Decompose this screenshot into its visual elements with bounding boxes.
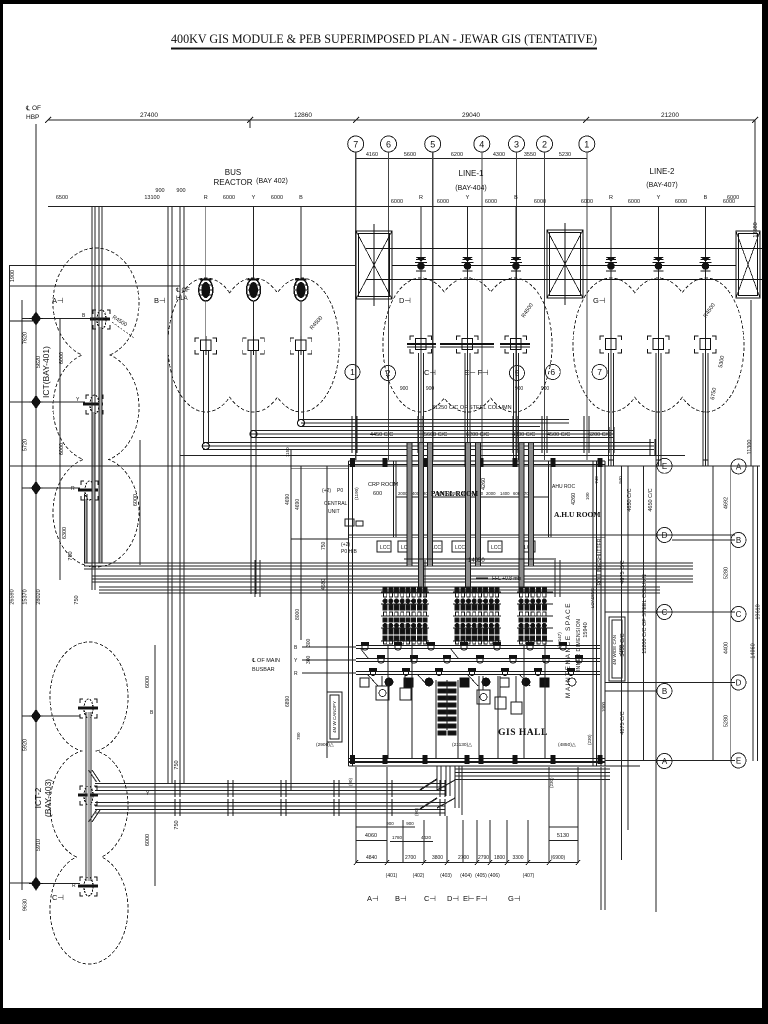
svg-text:P0: P0 xyxy=(337,488,343,494)
svg-text:℄ OF: ℄ OF xyxy=(175,288,190,294)
svg-text:6200: 6200 xyxy=(451,152,463,158)
svg-text:4M W CANOPY: 4M W CANOPY xyxy=(332,701,337,733)
svg-text:6000: 6000 xyxy=(437,199,449,205)
svg-text:A.H.U ROOM: A.H.U ROOM xyxy=(554,510,600,519)
svg-text:6000: 6000 xyxy=(534,199,546,205)
svg-text:5230: 5230 xyxy=(559,152,571,158)
svg-text:2790: 2790 xyxy=(478,855,489,861)
wire diagonal ties xyxy=(360,648,530,686)
svg-text:(10147): (10147) xyxy=(557,632,562,648)
bottom dim labels xyxy=(366,855,566,861)
svg-text:4650 C/C: 4650 C/C xyxy=(627,488,633,511)
svg-text:LINE-1: LINE-1 xyxy=(459,169,484,178)
wire bottom main dim line xyxy=(356,862,578,864)
svg-text:750: 750 xyxy=(174,760,180,769)
svg-text:HLA: HLA xyxy=(176,296,188,302)
svg-text:4875 C/C: 4875 C/C xyxy=(620,711,626,734)
connector BR B xyxy=(290,336,312,355)
svg-text:3550: 3550 xyxy=(524,152,536,158)
svg-text:4M WIDE CAN: 4M WIDE CAN xyxy=(612,635,617,665)
svg-text:5: 5 xyxy=(430,140,435,150)
svg-text:1780: 1780 xyxy=(392,835,403,840)
svg-text:4160: 4160 xyxy=(366,152,378,158)
svg-text:R: R xyxy=(419,195,423,201)
svg-text:11300: 11300 xyxy=(747,440,753,455)
LCC boxes row xyxy=(377,541,535,552)
svg-text:740: 740 xyxy=(594,476,599,484)
connector L2 B xyxy=(695,336,717,353)
svg-text:4450 C/C: 4450 C/C xyxy=(370,432,393,438)
svg-text:14050: 14050 xyxy=(468,558,485,564)
svg-text:MAINTENANCE SPACE: MAINTENANCE SPACE xyxy=(565,602,572,698)
svg-text:600: 600 xyxy=(373,491,382,497)
svg-text:(BAY 402): (BAY 402) xyxy=(256,178,288,185)
svg-text:(BAY-403): (BAY-403) xyxy=(43,779,53,817)
bus labels C/C xyxy=(370,405,611,438)
svg-text:HBP: HBP xyxy=(26,114,39,121)
connector L1 R xyxy=(407,336,436,353)
svg-text:Y: Y xyxy=(657,195,661,201)
connector ICT-1 B xyxy=(90,310,110,329)
svg-text:940: 940 xyxy=(618,476,623,484)
lower equipment row xyxy=(360,678,576,687)
svg-text:750: 750 xyxy=(68,551,74,560)
interior wall below control rooms xyxy=(349,534,606,536)
cloud BUS REACTOR (BAY 402) xyxy=(168,278,339,412)
wire left dim vertical x=291 xyxy=(290,450,292,790)
wire far right verticals xyxy=(752,466,754,761)
svg-text:℄ OF: ℄ OF xyxy=(25,105,41,112)
svg-text:900: 900 xyxy=(406,821,414,826)
svg-text:ICT(BAY-401): ICT(BAY-401) xyxy=(41,346,51,398)
bushing Y xyxy=(247,279,261,301)
room divider CRP|PANEL xyxy=(393,461,395,537)
svg-text:31250 C/C OF STEEL COLUMN: 31250 C/C OF STEEL COLUMN xyxy=(432,405,512,411)
svg-text:℄ OF MAIN: ℄ OF MAIN xyxy=(251,658,280,664)
svg-text:4260: 4260 xyxy=(481,478,487,490)
svg-text:4650 C/C: 4650 C/C xyxy=(648,488,654,511)
svg-text:3: 3 xyxy=(514,140,519,150)
steel column K1 xyxy=(356,224,392,306)
svg-text:6890: 6890 xyxy=(285,696,291,707)
svg-text:4580: 4580 xyxy=(321,579,327,590)
svg-text:G⊣: G⊣ xyxy=(593,296,606,305)
cloud LINE-2 (BAY-407) xyxy=(573,278,744,412)
svg-text:7620: 7620 xyxy=(23,332,29,344)
svg-text:R4500: R4500 xyxy=(309,315,324,331)
wall columns on grid xyxy=(350,458,603,764)
svg-text:BUS: BUS xyxy=(225,168,241,177)
wire ICT-2 feeder vertical (grey core) xyxy=(87,712,90,881)
wire flange marks on E row xyxy=(608,459,709,461)
svg-text:(1190): (1190) xyxy=(354,487,359,500)
svg-text:6000: 6000 xyxy=(133,494,139,506)
connector ICT-1 R xyxy=(78,481,98,500)
svg-text:4690: 4690 xyxy=(295,499,301,510)
svg-text:D⊣: D⊣ xyxy=(447,894,459,903)
svg-text:14960: 14960 xyxy=(751,643,757,658)
svg-text:5450 C/C: 5450 C/C xyxy=(620,633,626,656)
wire grid row lines right xyxy=(605,535,735,761)
svg-text:4420: 4420 xyxy=(421,835,432,840)
svg-text:Y: Y xyxy=(294,658,298,664)
equipment cluster bay C xyxy=(517,587,553,644)
svg-text:21200: 21200 xyxy=(661,112,679,119)
svg-text:(407): (407) xyxy=(523,873,535,879)
svg-text:C: C xyxy=(736,610,742,619)
connector L2 Y xyxy=(648,336,670,353)
svg-text:6200 C/C: 6200 C/C xyxy=(588,432,611,438)
svg-text:5280: 5280 xyxy=(724,715,730,727)
svg-text:A: A xyxy=(662,757,668,766)
grid bubbles row 2 xyxy=(345,365,607,381)
svg-text:4260: 4260 xyxy=(571,493,577,505)
svg-text:6000: 6000 xyxy=(628,199,640,205)
label ICT-2 (BAY-403) xyxy=(33,779,53,817)
svg-text:29040: 29040 xyxy=(462,112,480,119)
wire feeders down xyxy=(203,351,303,594)
svg-text:UNIT: UNIT xyxy=(328,509,340,515)
connector ICT-2 Y xyxy=(78,786,98,805)
svg-text:B: B xyxy=(662,687,667,696)
small boxes with stems xyxy=(376,676,522,714)
svg-text:B: B xyxy=(299,195,303,201)
wire LINE phase drops xyxy=(419,207,709,466)
svg-text:CRP ROOM: CRP ROOM xyxy=(368,482,399,488)
svg-text:BUSBAR: BUSBAR xyxy=(252,667,275,673)
svg-text:2700: 2700 xyxy=(458,855,469,861)
wire ICT-1 feeder verticals xyxy=(60,207,155,886)
svg-text:(+2): (+2) xyxy=(341,542,350,548)
svg-text:(401): (401) xyxy=(386,873,398,879)
svg-text:FFL +0.8 mts: FFL +0.8 mts xyxy=(492,576,522,582)
steel column K2 xyxy=(547,223,583,305)
svg-text:Y: Y xyxy=(466,195,470,201)
svg-text:5280: 5280 xyxy=(724,567,730,579)
valve symbols row y=265 xyxy=(415,258,712,272)
svg-text:D: D xyxy=(662,531,668,540)
svg-text:6000: 6000 xyxy=(223,195,235,201)
rotated dim labels right of hall xyxy=(594,476,654,735)
svg-text:6000: 6000 xyxy=(391,199,403,205)
connector L1 B xyxy=(500,336,530,353)
svg-text:900: 900 xyxy=(176,188,185,194)
connector ICT-1 Y xyxy=(83,395,103,414)
wire left dim vertical x=327 xyxy=(326,466,328,758)
svg-text:(230): (230) xyxy=(549,777,554,788)
svg-text:1900: 1900 xyxy=(10,270,16,282)
wire main busbar band 2 xyxy=(95,803,445,814)
wire busbar tick flanges xyxy=(175,780,445,816)
svg-text:6000: 6000 xyxy=(675,199,687,205)
wire column drop lines below hall xyxy=(356,767,605,910)
rotated dim labels left xyxy=(10,270,181,911)
svg-text:E⊢: E⊢ xyxy=(463,894,475,903)
dim row tiny xyxy=(398,491,532,496)
svg-text:5300: 5300 xyxy=(718,355,726,368)
svg-text:750: 750 xyxy=(74,595,80,604)
svg-text:(403): (403) xyxy=(440,873,452,879)
grid bubbles inner col xyxy=(657,458,672,768)
wire left stub to K1 xyxy=(10,320,36,322)
svg-text:C⊣: C⊣ xyxy=(424,894,436,903)
svg-text:A⊣: A⊣ xyxy=(52,296,64,305)
connector L2 R xyxy=(600,336,622,353)
svg-text:19610: 19610 xyxy=(756,604,762,619)
svg-text:(230): (230) xyxy=(587,734,592,745)
svg-text:5720: 5720 xyxy=(23,439,29,451)
svg-text:6500: 6500 xyxy=(56,195,68,201)
connector ICT-2 R xyxy=(78,877,98,896)
svg-text:B: B xyxy=(514,195,518,201)
svg-text:3300: 3300 xyxy=(512,855,523,861)
dim 14050 xyxy=(404,558,556,560)
wire bus tick flanges xyxy=(352,416,655,456)
svg-text:4300 C/C: 4300 C/C xyxy=(512,432,535,438)
svg-text:CENTRAL: CENTRAL xyxy=(324,501,348,507)
svg-text:(405): (405) xyxy=(475,873,487,879)
svg-text:LCC: LCC xyxy=(491,545,501,551)
svg-text:900: 900 xyxy=(155,188,164,194)
surge arrester diamonds on x=36 xyxy=(29,312,43,890)
small hub box xyxy=(345,519,354,526)
svg-text:B: B xyxy=(736,536,741,545)
bushing B xyxy=(294,279,308,301)
svg-text:4500 C/C: 4500 C/C xyxy=(547,432,570,438)
svg-text:27400: 27400 xyxy=(140,112,158,119)
GIS hall outer walls xyxy=(349,461,641,766)
svg-text:R4500: R4500 xyxy=(521,302,535,319)
svg-text:5910: 5910 xyxy=(36,839,42,851)
wire band line upper y=248.5 xyxy=(366,248,762,250)
svg-text:300: 300 xyxy=(306,655,312,664)
svg-text:12860: 12860 xyxy=(294,112,312,119)
canopy box xyxy=(609,617,625,681)
svg-text:P0 HIB: P0 HIB xyxy=(341,549,358,555)
grid bubbles outer col xyxy=(731,459,746,768)
wire main busbar band 1 xyxy=(95,769,610,794)
svg-text:4300: 4300 xyxy=(493,152,505,158)
svg-text:6000: 6000 xyxy=(581,199,593,205)
svg-text:B⊣: B⊣ xyxy=(395,894,407,903)
svg-text:LCC: LCC xyxy=(455,545,465,551)
svg-text:1150: 1150 xyxy=(285,447,290,457)
svg-text:7: 7 xyxy=(353,140,358,150)
wire left horizontal ties xyxy=(10,265,356,267)
cable feeder stacks down xyxy=(436,680,458,758)
wire bus row2 y=432 xyxy=(251,430,613,432)
svg-text:(90): (90) xyxy=(348,777,353,786)
svg-text:F⊣: F⊣ xyxy=(476,894,488,903)
svg-text:A⊣: A⊣ xyxy=(367,894,379,903)
svg-text:(90): (90) xyxy=(414,808,419,817)
svg-text:5130: 5130 xyxy=(557,833,569,839)
wire ICT-2 elbows to main busbar xyxy=(89,770,101,782)
svg-text:R: R xyxy=(72,883,76,889)
wire bus row1 y=421 xyxy=(10,420,760,466)
svg-text:(4850)△: (4850)△ xyxy=(558,742,576,748)
svg-text:2700: 2700 xyxy=(405,855,416,861)
svg-text:4692: 4692 xyxy=(724,497,730,509)
svg-text:5920: 5920 xyxy=(23,739,29,751)
svg-text:C⊣: C⊣ xyxy=(424,368,436,377)
svg-text:INNER DIMENSION: INNER DIMENSION xyxy=(576,619,582,672)
dim bracket 4060 xyxy=(356,827,387,841)
svg-text:(BAY-407): (BAY-407) xyxy=(646,182,678,189)
wire outer tick vertical xyxy=(712,466,714,761)
svg-text:Y: Y xyxy=(252,195,256,201)
svg-text:LOADING: LOADING xyxy=(590,587,595,608)
svg-text:9630: 9630 xyxy=(23,899,29,911)
svg-text:780: 780 xyxy=(296,732,301,740)
wire row ties ICT-2 xyxy=(43,715,80,717)
wire left dim verticals xyxy=(9,265,11,940)
svg-text:750: 750 xyxy=(174,820,180,829)
wire HBP conductor pairs xyxy=(168,207,184,783)
svg-text:ROLLING SHUTTER: ROLLING SHUTTER xyxy=(597,538,603,585)
svg-text:900: 900 xyxy=(541,386,550,392)
connector BR R xyxy=(195,336,217,355)
wire riser elbows near hall xyxy=(420,766,462,815)
wire bushing to connector xyxy=(205,301,207,337)
svg-text:E: E xyxy=(736,757,741,766)
svg-text:1000: 1000 xyxy=(601,701,606,712)
wire main top dimension line y=120 xyxy=(48,119,755,121)
svg-text:6000: 6000 xyxy=(485,199,497,205)
elbow flanges xyxy=(202,420,304,450)
wire bus tick groups xyxy=(255,560,560,597)
wire ICT-1 feeder grey cores xyxy=(99,327,102,563)
svg-text:B: B xyxy=(150,710,154,716)
svg-text:6000: 6000 xyxy=(271,195,283,201)
svg-text:2000: 2000 xyxy=(398,491,408,496)
wire left dim vertical x=301 xyxy=(300,466,302,640)
bay number labels xyxy=(386,873,535,879)
svg-text:7: 7 xyxy=(597,367,602,377)
svg-text:E: E xyxy=(662,462,667,471)
svg-text:2: 2 xyxy=(542,140,547,150)
svg-text:R4500: R4500 xyxy=(703,302,717,319)
svg-text:PANEL ROOM: PANEL ROOM xyxy=(431,490,479,498)
busbar rows in hall xyxy=(356,646,600,675)
svg-text:D: D xyxy=(736,679,742,688)
svg-text:6000: 6000 xyxy=(145,676,151,688)
svg-text:GIS HALL: GIS HALL xyxy=(498,728,548,738)
busbar flange circles xyxy=(362,644,582,676)
svg-text:R: R xyxy=(294,671,298,677)
svg-text:8000: 8000 xyxy=(295,609,301,620)
svg-text:G⊣: G⊣ xyxy=(508,894,521,903)
svg-text:LCC: LCC xyxy=(380,545,390,551)
svg-text:13580: 13580 xyxy=(753,222,759,237)
svg-text:R: R xyxy=(609,195,613,201)
svg-text:15940: 15940 xyxy=(583,622,589,637)
connector ICT-2 B xyxy=(78,699,98,718)
svg-text:B: B xyxy=(704,195,708,201)
svg-text:6750: 6750 xyxy=(710,387,718,400)
cloud ICT(BAY-401) xyxy=(53,248,139,567)
dim bracket 5130 xyxy=(549,827,578,841)
svg-text:750: 750 xyxy=(321,541,327,550)
svg-text:28020: 28020 xyxy=(36,589,42,604)
svg-text:R: R xyxy=(71,486,75,492)
svg-text:5600: 5600 xyxy=(404,152,416,158)
svg-text:4875 C/C: 4875 C/C xyxy=(620,560,626,583)
bushing R xyxy=(199,279,213,301)
equipment cluster bay A xyxy=(381,587,429,644)
svg-text:R4500: R4500 xyxy=(111,315,128,329)
small dims 900 1780 4420 xyxy=(386,808,431,840)
wicket gate boxes xyxy=(327,692,342,742)
svg-text:900: 900 xyxy=(386,821,394,826)
svg-text:(406): (406) xyxy=(488,873,500,879)
section marker A xyxy=(52,288,190,305)
svg-text:LINE-2: LINE-2 xyxy=(650,167,675,176)
steel column K3 right edge xyxy=(736,231,760,298)
svg-text:4840: 4840 xyxy=(366,855,377,861)
svg-text:(402): (402) xyxy=(413,873,425,879)
wire HLA line right part xyxy=(392,265,736,267)
equipment cluster bay B xyxy=(453,587,501,644)
connector L1 Y xyxy=(440,336,494,353)
svg-text:6: 6 xyxy=(550,367,555,377)
wire extension verticals xyxy=(35,124,37,888)
svg-text:5600 C/C: 5600 C/C xyxy=(424,432,447,438)
svg-text:D⊣: D⊣ xyxy=(399,296,411,305)
busbar flange blocks xyxy=(361,642,583,672)
bottom annotation row xyxy=(316,742,576,748)
svg-text:4690: 4690 xyxy=(285,494,291,505)
svg-text:AHU ROC: AHU ROC xyxy=(552,484,575,490)
svg-text:6000: 6000 xyxy=(727,195,739,201)
svg-text:B: B xyxy=(294,645,298,651)
svg-text:1: 1 xyxy=(350,367,355,377)
svg-text:15200 C/C OF STEEL COLUMN: 15200 C/C OF STEEL COLUMN xyxy=(642,574,648,654)
cloud ICT-2 (BAY-403) xyxy=(50,642,128,964)
GIB grey vertical ducts xyxy=(410,443,532,588)
room texts xyxy=(322,478,600,519)
svg-text:13100: 13100 xyxy=(144,195,159,201)
wire row ties ICT-1 xyxy=(43,318,92,320)
wire row E long line xyxy=(10,465,760,467)
bay titles xyxy=(214,167,678,192)
wire HBP bus rows to the right y 563-594 xyxy=(84,563,693,593)
rotated dim labels far right xyxy=(724,195,762,727)
svg-text:900: 900 xyxy=(400,386,409,392)
svg-text:R: R xyxy=(204,195,208,201)
svg-text:(404): (404) xyxy=(460,873,472,879)
wire B Y R stubs left of hall xyxy=(302,647,356,673)
wire bus row3 y=444 xyxy=(203,442,654,444)
title xyxy=(171,32,597,49)
svg-text:C: C xyxy=(662,608,668,617)
svg-text:B⊣: B⊣ xyxy=(154,296,166,305)
wire phase dimension line y=206.5 xyxy=(48,206,755,208)
section markers bottom row xyxy=(367,894,521,903)
svg-text:ICT-2: ICT-2 xyxy=(33,787,43,808)
connector BR Y xyxy=(243,336,265,355)
wire band line lower y=279.5 xyxy=(366,279,762,281)
wire bubble tie line xyxy=(356,158,587,160)
svg-text:(21130)△: (21130)△ xyxy=(452,742,472,748)
grid bubbles row 1 (7..1) xyxy=(348,136,595,152)
svg-text:A: A xyxy=(736,462,742,471)
svg-text:400KV GIS MODULE & PEB SUPERI: 400KV GIS MODULE & PEB SUPERIMPOSED PLAN… xyxy=(171,32,597,46)
wire grid verticals from bubbles xyxy=(356,152,587,460)
svg-text:4400: 4400 xyxy=(724,642,730,654)
svg-text:15370: 15370 xyxy=(23,589,29,604)
svg-text:4060: 4060 xyxy=(365,833,377,839)
